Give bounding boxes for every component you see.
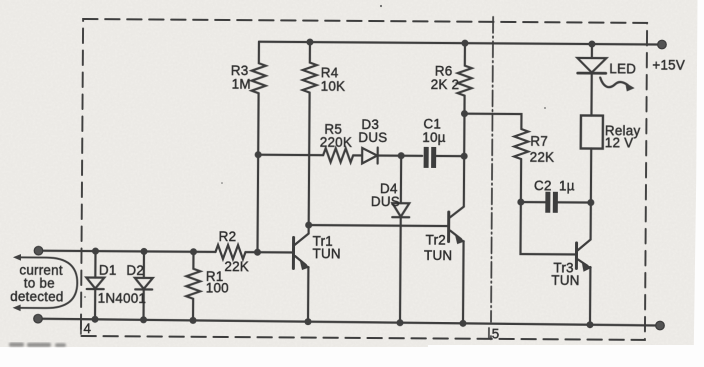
wire R6 to node: [463, 96, 466, 156]
svg-text:D2: D2: [126, 263, 144, 278]
node R1 top: [190, 248, 197, 255]
wire D3 to node: [378, 154, 422, 157]
label Tr2 TUN: [424, 232, 453, 263]
svg-text:12 V: 12 V: [605, 135, 634, 150]
diode D4: [400, 156, 403, 203]
wire left end of R5 row: [258, 154, 323, 157]
node Tr1 emitter ground: [304, 318, 311, 325]
node R6 top: [461, 40, 468, 47]
label frame number 4: [80, 321, 82, 333]
label R5 220K: [320, 122, 353, 150]
svg-text:1µ: 1µ: [559, 178, 575, 193]
dash-dot section divider: [491, 17, 493, 322]
terminal +15V: [658, 40, 667, 49]
wire R3 to node: [257, 93, 260, 154]
node D1 bottom: [91, 316, 98, 323]
wire input upper: [38, 251, 215, 252]
svg-text:TUN: TUN: [424, 248, 452, 263]
label R1 100: [206, 269, 229, 296]
label R6 2K2: [431, 63, 460, 92]
resistor R5: [323, 148, 353, 162]
transistor Tr1: [292, 237, 295, 268]
resistor R1: [186, 252, 200, 321]
printing smudge bottom left: [9, 343, 66, 348]
svg-text:22K: 22K: [224, 259, 249, 274]
label 1N4001: [98, 291, 147, 306]
transistor Tr2: [447, 212, 450, 241]
svg-text:220K: 220K: [320, 135, 352, 150]
svg-text:DUS: DUS: [371, 194, 400, 209]
svg-text:TUN: TUN: [312, 246, 340, 261]
label R3 1M: [231, 63, 251, 92]
label Tr3 TUN: [551, 260, 580, 288]
svg-text:D1: D1: [99, 263, 117, 278]
label LED: [609, 61, 636, 76]
wire R2 to Tr1 base: [245, 251, 292, 254]
wire ground rail: [38, 319, 660, 326]
wire C1 to node: [436, 155, 464, 157]
svg-text:100: 100: [206, 280, 229, 295]
node R1 bottom: [189, 317, 196, 324]
svg-text:R2: R2: [219, 229, 237, 244]
node D2 bottom: [140, 316, 147, 323]
svg-text:10µ: 10µ: [422, 130, 446, 145]
resistor R3: [252, 42, 266, 94]
svg-text:DUS: DUS: [358, 130, 387, 145]
wire Tr3 emitter to ground rail: [589, 267, 592, 325]
wire R5 to D3: [353, 154, 362, 156]
node LED top: [588, 41, 595, 48]
svg-text:C2: C2: [534, 178, 552, 193]
wire Tr1 emitter to ground rail: [307, 267, 310, 322]
node C1 R6: [461, 153, 468, 160]
label C1 10u: [422, 116, 446, 145]
wire R6 node to R7: [464, 114, 521, 129]
wire Tr1 collector to Tr2 base: [309, 224, 448, 227]
resistor R4: [303, 42, 317, 93]
wire R7 to C2 node: [520, 159, 523, 202]
node Tr2 emitter ground: [459, 320, 466, 327]
label D3 DUS: [358, 117, 387, 145]
svg-text:TUN: TUN: [551, 273, 579, 288]
white page edges: [694, 0, 704, 367]
node R3 R5: [255, 151, 262, 158]
wire LED to relay: [590, 74, 592, 116]
current source loop symbol: [20, 257, 77, 308]
node R4 top: [306, 39, 313, 46]
label D1: [99, 263, 117, 278]
relay coil: [581, 115, 603, 148]
node D4 ground: [396, 319, 403, 326]
svg-text:R7: R7: [530, 134, 548, 149]
paper specks: [84, 5, 546, 298]
diode D1: [94, 251, 96, 277]
svg-text:10K: 10K: [321, 79, 346, 94]
node R3 R2 base: [254, 249, 261, 256]
label +15V: [652, 57, 685, 72]
svg-text:4: 4: [83, 321, 91, 336]
svg-text:1N4001: 1N4001: [98, 291, 147, 306]
label Tr1 TUN: [312, 234, 341, 262]
LED: [577, 58, 606, 73]
svg-text:1M: 1M: [232, 77, 251, 92]
node D2 top: [140, 248, 147, 255]
wire top supply rail: [259, 42, 662, 45]
wire R4 to Tr1 collector node: [308, 93, 311, 225]
terminal input lower: [34, 314, 43, 323]
wire C2 left lead: [521, 201, 545, 203]
label Relay 12 V: [605, 123, 641, 150]
label current to be detected: [10, 262, 64, 304]
diode D2: [143, 251, 145, 277]
label R7 22K: [530, 134, 555, 165]
wire LED feed: [591, 44, 593, 58]
wire C2 right lead: [558, 201, 591, 203]
capacitor C1: [424, 147, 437, 168]
svg-text:+15V: +15V: [652, 57, 685, 72]
terminal input upper: [34, 246, 43, 255]
capacitor C2: [545, 192, 558, 213]
label frame number 5: [489, 328, 491, 340]
wire R7 node down to Tr3 base: [520, 202, 575, 254]
wire relay to C2 node: [590, 149, 593, 203]
diode D3: [362, 148, 377, 164]
wire Tr2 emitter to ground rail: [462, 241, 465, 323]
wire R3 to Tr1 base node: [256, 155, 259, 252]
node Tr1 collector: [305, 222, 312, 229]
label D4 DUS: [371, 181, 400, 209]
resistor R2: [215, 245, 245, 259]
label D2: [126, 263, 144, 278]
node R6 bottom: [461, 110, 468, 117]
node R7 C2: [517, 199, 524, 206]
svg-text:22K: 22K: [530, 150, 555, 165]
transistor Tr3: [575, 243, 578, 268]
terminal ground right: [656, 321, 665, 330]
label R2 22K: [218, 229, 249, 274]
svg-text:LED: LED: [609, 61, 636, 76]
svg-text:detected: detected: [10, 289, 64, 304]
resistor R7: [514, 129, 528, 159]
node Tr3 emitter ground: [586, 321, 593, 328]
label R4 10K: [321, 65, 346, 94]
svg-text:2K 2: 2K 2: [431, 77, 460, 92]
svg-text:Tr2: Tr2: [426, 232, 446, 247]
node D3 D4 C1: [398, 152, 405, 159]
wire D4 to ground rail: [399, 217, 402, 322]
dashed enclosure border: [81, 19, 647, 340]
node D1 top: [92, 248, 99, 255]
resistor R6: [458, 43, 472, 96]
label C2 1u: [534, 178, 575, 193]
svg-text:5: 5: [492, 326, 500, 341]
node C2 relay: [587, 199, 594, 206]
